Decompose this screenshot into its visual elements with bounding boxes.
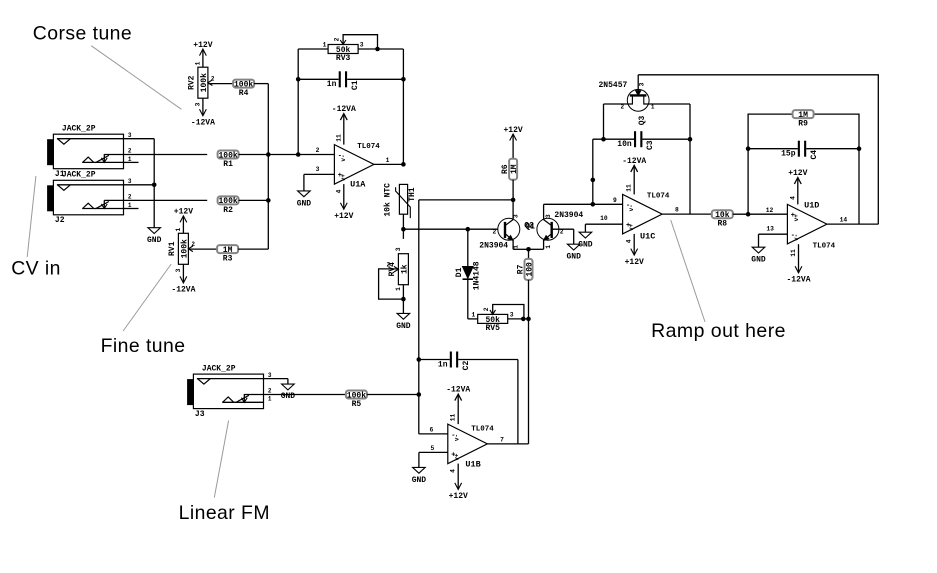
svg-text:1: 1 — [128, 202, 132, 209]
svg-text:11: 11 — [335, 134, 342, 142]
svg-text:3: 3 — [638, 82, 645, 86]
svg-text:3: 3 — [195, 102, 202, 106]
svg-text:C3: C3 — [646, 140, 655, 150]
svg-text:R6: R6 — [501, 164, 510, 174]
svg-text:7: 7 — [500, 436, 504, 443]
svg-text:TL074: TL074 — [471, 426, 494, 434]
svg-text:Fine tune: Fine tune — [101, 335, 186, 357]
svg-text:RV2: RV2 — [188, 75, 197, 90]
svg-text:1k: 1k — [400, 264, 409, 274]
svg-text:2: 2 — [334, 37, 341, 41]
svg-text:J3: J3 — [195, 410, 205, 419]
svg-text:2: 2 — [483, 307, 490, 311]
svg-text:+12V: +12V — [193, 41, 212, 50]
svg-text:1M: 1M — [798, 111, 808, 120]
svg-text:2N5457: 2N5457 — [599, 81, 628, 90]
svg-text:Ramp out here: Ramp out here — [651, 320, 786, 342]
svg-text:U1B: U1B — [465, 459, 480, 469]
svg-text:+12V: +12V — [174, 208, 193, 217]
svg-text:RV3: RV3 — [336, 54, 351, 63]
svg-text:JACK_2P: JACK_2P — [62, 171, 96, 180]
svg-text:R3: R3 — [223, 255, 233, 264]
svg-text:4: 4 — [450, 469, 457, 473]
svg-text:R4: R4 — [239, 89, 249, 98]
svg-text:2: 2 — [191, 241, 195, 248]
svg-text:GND: GND — [281, 392, 296, 401]
svg-text:C2: C2 — [462, 361, 471, 371]
svg-text:GND: GND — [297, 199, 312, 208]
svg-text:14: 14 — [840, 216, 848, 223]
svg-text:3: 3 — [360, 42, 364, 49]
svg-text:3: 3 — [512, 214, 519, 218]
svg-text:R9: R9 — [798, 120, 808, 129]
svg-text:GND: GND — [147, 236, 162, 245]
svg-text:11: 11 — [450, 414, 457, 422]
svg-text:12: 12 — [766, 207, 774, 214]
svg-text:1: 1 — [395, 287, 402, 291]
svg-text:2: 2 — [621, 104, 625, 111]
svg-text:R1: R1 — [223, 160, 233, 169]
svg-text:100k: 100k — [234, 80, 253, 89]
svg-text:1: 1 — [175, 227, 182, 231]
svg-text:GND: GND — [396, 322, 411, 331]
svg-text:5: 5 — [431, 445, 435, 452]
svg-text:3: 3 — [545, 214, 552, 218]
svg-text:TL074: TL074 — [357, 143, 380, 151]
svg-text:v+: v+ — [340, 174, 347, 182]
svg-text:-12VA: -12VA — [332, 105, 356, 114]
svg-text:+12V: +12V — [449, 492, 468, 501]
svg-text:1M: 1M — [223, 246, 233, 255]
svg-text:v-: v- — [628, 204, 635, 211]
svg-text:2: 2 — [316, 147, 320, 154]
svg-text:4: 4 — [626, 239, 633, 243]
svg-text:C4: C4 — [810, 150, 819, 160]
svg-text:2N3904: 2N3904 — [479, 241, 508, 250]
svg-text:4: 4 — [335, 189, 342, 193]
svg-text:J2: J2 — [55, 216, 65, 225]
svg-text:11: 11 — [790, 249, 797, 257]
svg-text:10k: 10k — [715, 211, 730, 220]
svg-text:100k: 100k — [218, 197, 237, 206]
svg-text:-12VA: -12VA — [622, 157, 646, 166]
svg-text:6: 6 — [430, 426, 434, 433]
svg-text:TH1: TH1 — [408, 187, 417, 202]
svg-text:3: 3 — [510, 311, 514, 318]
svg-text:15p: 15p — [781, 150, 796, 159]
svg-text:10n: 10n — [617, 140, 632, 149]
svg-text:1: 1 — [545, 245, 552, 249]
svg-text:+12V: +12V — [503, 126, 522, 135]
svg-text:1n: 1n — [438, 360, 448, 369]
svg-text:-12VA: -12VA — [446, 386, 470, 395]
svg-text:1: 1 — [472, 311, 476, 318]
svg-text:2N3904: 2N3904 — [554, 211, 583, 220]
svg-text:D1: D1 — [455, 267, 464, 277]
svg-text:+12V: +12V — [334, 212, 353, 221]
svg-text:10: 10 — [600, 215, 608, 222]
svg-text:GND: GND — [412, 476, 427, 485]
svg-text:1: 1 — [512, 245, 519, 249]
svg-text:4: 4 — [789, 196, 796, 200]
svg-text:2: 2 — [128, 194, 132, 201]
svg-text:2: 2 — [268, 388, 272, 395]
svg-text:U1D: U1D — [804, 200, 819, 210]
svg-text:v-: v- — [453, 434, 460, 441]
svg-text:3: 3 — [128, 178, 132, 185]
svg-text:+12V: +12V — [625, 258, 644, 267]
svg-text:10k NTC: 10k NTC — [384, 183, 393, 217]
svg-text:v-: v- — [340, 154, 347, 161]
svg-text:RV1: RV1 — [168, 241, 177, 256]
svg-text:-12VA: -12VA — [786, 276, 810, 285]
svg-text:1M: 1M — [510, 164, 519, 174]
svg-text:v+: v+ — [453, 453, 460, 461]
svg-text:RV5: RV5 — [485, 324, 500, 333]
svg-text:Q1: Q1 — [525, 222, 535, 231]
svg-text:2: 2 — [387, 261, 391, 268]
svg-text:R5: R5 — [352, 400, 362, 409]
svg-text:1: 1 — [268, 396, 272, 403]
svg-text:TL074: TL074 — [647, 193, 670, 201]
svg-text:1: 1 — [386, 157, 390, 164]
svg-text:2: 2 — [493, 229, 497, 236]
svg-text:U1A: U1A — [350, 179, 366, 189]
svg-text:2: 2 — [560, 229, 564, 236]
svg-text:JACK_2P: JACK_2P — [62, 125, 96, 134]
svg-text:Q3: Q3 — [638, 116, 647, 126]
svg-text:1N4148: 1N4148 — [472, 261, 481, 290]
svg-text:1: 1 — [651, 104, 655, 111]
svg-text:U1C: U1C — [640, 231, 655, 241]
svg-text:C1: C1 — [351, 80, 360, 90]
svg-text:JACK_2P: JACK_2P — [202, 365, 236, 374]
svg-text:R2: R2 — [223, 206, 233, 215]
svg-text:R7: R7 — [516, 264, 525, 274]
svg-text:3: 3 — [175, 268, 182, 272]
svg-text:TL074: TL074 — [813, 242, 836, 250]
svg-text:v+: v+ — [628, 223, 635, 231]
svg-text:100: 100 — [525, 262, 534, 277]
svg-text:Corse tune: Corse tune — [33, 22, 132, 44]
svg-text:3: 3 — [395, 247, 402, 251]
svg-text:v+: v+ — [793, 214, 800, 222]
svg-text:1: 1 — [195, 61, 202, 65]
svg-text:GND: GND — [578, 241, 593, 250]
svg-text:11: 11 — [626, 184, 633, 192]
svg-text:1: 1 — [323, 42, 327, 49]
svg-text:+12V: +12V — [788, 169, 807, 178]
svg-text:-12VA: -12VA — [171, 286, 195, 295]
svg-text:-12VA: -12VA — [191, 119, 215, 128]
svg-text:1n: 1n — [327, 80, 337, 89]
svg-text:R8: R8 — [717, 220, 727, 229]
svg-text:2: 2 — [211, 76, 215, 83]
svg-text:GND: GND — [751, 256, 766, 265]
svg-text:9: 9 — [613, 197, 617, 204]
svg-text:100k: 100k — [218, 151, 237, 160]
svg-text:13: 13 — [766, 226, 774, 233]
svg-text:v-: v- — [793, 234, 800, 241]
svg-text:8: 8 — [675, 207, 679, 214]
svg-text:100k: 100k — [347, 391, 366, 400]
svg-text:2: 2 — [128, 148, 132, 155]
svg-text:Linear FM: Linear FM — [179, 502, 270, 524]
svg-text:GND: GND — [566, 253, 581, 262]
svg-text:CV in: CV in — [11, 258, 61, 280]
svg-text:3: 3 — [316, 166, 320, 173]
